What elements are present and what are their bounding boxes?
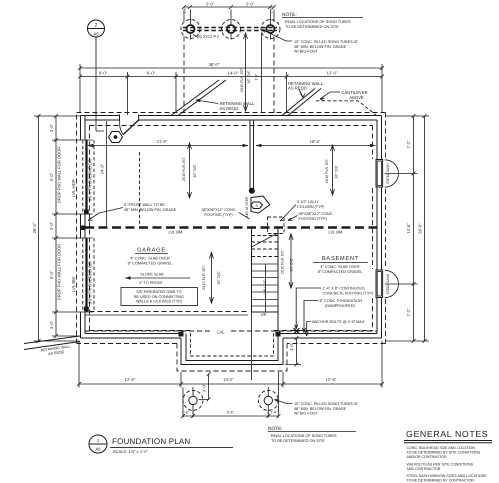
svg-text:5'-0": 5'-0" [206,2,215,7]
svg-text:2X10 FLR JST.: 2X10 FLR JST. [182,156,186,181]
right overall dimension line 28'-0" [424,116,426,341]
porch PT beam dashed band [183,28,277,31]
svg-text:9'-6": 9'-6" [227,410,235,414]
left door jamb cross lines [79,140,93,312]
bottom sono tube left [183,387,203,414]
man door swing arc [120,121,124,135]
svg-text:LVL BM.: LVL BM. [329,230,344,235]
garage column hexagon [109,132,123,143]
foundation dampproofed note [303,301,319,333]
svg-text:4: 4 [255,203,258,208]
svg-text:ANCHOR BOLTS @ 4'-0" MAX: ANCHOR BOLTS @ 4'-0" MAX [312,320,365,324]
wall left door header thick lines [85,140,87,312]
bottom dim extension lines [79,341,382,388]
svg-text:ABOVE: ABOVE [349,95,364,100]
retaining wall bottom left label [41,344,72,357]
left dim extension lines [34,116,80,341]
svg-text:TO BE DETERMINED ON SITE: TO BE DETERMINED ON SITE [285,25,339,29]
basement interior width dim 18'-4" [256,145,376,147]
stoop depth dim 4'-0" [285,336,301,367]
lally footing dashed square [268,217,285,234]
stairs shaft right wall [277,228,279,313]
svg-text:14'-0": 14'-0" [100,163,105,174]
stoop outer walls [181,338,283,365]
svg-text:A6: A6 [93,32,99,37]
svg-text:4" TO FRONT: 4" TO FRONT [139,281,163,285]
svg-text:6'-0": 6'-0" [147,71,156,76]
porch dim extension lines [184,10,274,23]
frost wall note [88,208,123,221]
svg-text:3 1/2" LALLY: 3 1/2" LALLY [297,200,319,204]
title block detail circle 1/A6 [89,435,107,453]
window 2 well arc [385,270,399,297]
porch joist span arrow [245,33,247,111]
bottom sono note [275,399,293,403]
sono tube 3 [261,19,280,40]
left wall outer face dashed at doors [82,140,84,312]
bottom tube dim extensions [183,372,279,418]
svg-text:WALLS & CEILINGS (TYP): WALLS & CEILINGS (TYP) [136,300,183,304]
svg-text:2X10 FLR JST.: 2X10 FLR JST. [240,67,244,92]
bottom sono tube right [258,387,278,414]
svg-text:9'-0": 9'-0" [49,270,54,279]
garage joist span arrow lower [210,253,214,304]
svg-text:48" MIN. BELOW FIN. GRADE: 48" MIN. BELOW FIN. GRADE [294,45,347,49]
window 1 right wall frame [376,160,383,188]
svg-text:13'-8": 13'-8" [406,223,411,234]
overall top dimension line 38'-0" [80,67,382,69]
stairs break diagonal [252,233,279,247]
stairs dashed treads [252,236,279,257]
svg-text:1: 1 [97,438,100,443]
svg-text:4" CONC. SLAB OVER: 4" CONC. SLAB OVER [320,265,360,269]
svg-text:14R / 13T: 14R / 13T [263,280,267,295]
svg-text:1'-6": 1'-6" [270,410,278,414]
wall bottom right of stoop [278,334,382,339]
svg-text:9'-0": 9'-0" [49,172,54,181]
svg-text:FOUNDATION PLAN: FOUNDATION PLAN [112,437,190,446]
svg-text:FINAL LOCATIONS OF SONO TUBES: FINAL LOCATIONS OF SONO TUBES [271,434,337,438]
stair wall extension to rear wall [251,312,253,380]
bottom dimension line [79,383,382,385]
wall right outer face [381,116,383,339]
door jamb post squares [84,210,89,215]
svg-text:36"X36"X12" CONC: 36"X36"X12" CONC [201,208,235,212]
lally footing note right [288,216,298,221]
svg-text:TO BE DETERMINED ON SITE: TO BE DETERMINED ON SITE [271,439,325,443]
stairs solid treads [252,264,279,306]
svg-text:6'-0": 6'-0" [99,71,108,76]
svg-text:LVL BM.: LVL BM. [71,276,76,292]
LVL BM main beam dashed [85,226,377,229]
retaining wall top right pair [282,89,321,116]
svg-text:7'-2": 7'-2" [406,140,411,149]
right dim extension lines [385,116,429,341]
PT beam label [193,35,196,37]
svg-text:BASEMENT: BASEMENT [322,256,359,262]
NOTE block bottom [268,426,356,443]
garage interior width dim 21'-6" [88,145,248,147]
svg-text:3'-0": 3'-0" [49,123,54,132]
sono tube note top [262,30,359,54]
stairs bottom [252,311,279,313]
svg-text:DROP FND WALL FOR DOOR: DROP FND WALL FOR DOOR [57,147,62,204]
svg-text:3'-0": 3'-0" [49,221,54,230]
svg-text:GARAGE: GARAGE [137,248,166,254]
sono tube 1 [181,19,200,40]
svg-text:5'-0": 5'-0" [246,2,255,7]
porch dim ticks [182,5,276,9]
svg-text:DROP FND WALL FOR DOOR: DROP FND WALL FOR DOOR [57,244,62,301]
continuous footing note [295,288,321,329]
basement joist span arrow upper [331,145,335,195]
porch edge line [261,33,263,113]
garage rear slab step dashed line [90,311,249,313]
svg-text:14'-0": 14'-0" [228,71,239,76]
general notes underline [404,441,492,443]
svg-text:8" COMPACTED GRAVEL: 8" COMPACTED GRAVEL [318,270,363,274]
svg-text:1'-4" X 8" CONTINUOUS: 1'-4" X 8" CONTINUOUS [323,287,366,291]
window 2 right wall frame [376,270,383,298]
svg-text:SCALE: 1/4" = 1'-0": SCALE: 1/4" = 1'-0" [113,449,148,454]
rear stoop post right [276,332,281,337]
NOTE block top right [282,12,363,29]
svg-text:3'-0": 3'-0" [49,320,54,329]
svg-text:TO BE DETERMINED BY SITE CONDI: TO BE DETERMINED BY SITE CONDITIONS [407,451,481,455]
svg-text:28'-0": 28'-0" [418,223,423,234]
svg-text:28'-0": 28'-0" [32,222,37,233]
svg-text:FOOTING (TYP): FOOTING (TYP) [299,217,328,221]
retaining wall top left label [196,99,218,103]
svg-text:GENERAL NOTES: GENERAL NOTES [406,429,488,439]
retaining wall top right label [299,90,305,98]
cantilever label [320,92,340,101]
center bearing wall garage/basement [250,120,254,190]
inner dashed footing perimeter [90,126,373,331]
svg-text:16" O/C: 16" O/C [217,271,221,284]
stairs center rail [265,264,267,312]
lally hexagon with number 4 [251,202,263,209]
svg-text:10" CONC. FILLED SONO TUBES AT: 10" CONC. FILLED SONO TUBES AT [294,402,359,406]
wall left outer face [80,116,82,339]
svg-text:16" O/C: 16" O/C [335,165,339,178]
svg-text:W/ BIG FOOT: W/ BIG FOOT [294,412,319,416]
svg-text:21'-6": 21'-6" [157,139,168,144]
svg-text:AS REQD: AS REQD [288,86,307,91]
svg-text:9'0 X 7'0 OVERHD DR: 9'0 X 7'0 OVERHD DR [88,262,93,304]
svg-text:AS REQD: AS REQD [220,106,239,111]
svg-text:12'-0": 12'-0" [327,71,338,76]
svg-text:2X10 FLR JST.: 2X10 FLR JST. [202,265,206,290]
man door leaf [123,120,138,135]
svg-text:W/ BIG FOOT: W/ BIG FOOT [294,50,319,54]
LVL opening dashed line across rear wall [85,330,377,332]
svg-text:CONC. BULKHEAD SIZE AND LOCATI: CONC. BULKHEAD SIZE AND LOCATION [407,446,476,450]
svg-text:9'0 X 7'0 OVERHD DR: 9'0 X 7'0 OVERHD DR [88,159,93,201]
svg-text:AND/OR CONTRACTOR: AND/OR CONTRACTOR [407,455,448,459]
wall top inner face [85,119,377,121]
svg-text:(DAMPROOFED): (DAMPROOFED) [325,304,355,308]
svg-text:36"X36"X12" CONC: 36"X36"X12" CONC [299,212,333,216]
top dimension line segments [80,76,382,78]
outer dashed footing perimeter [77,113,386,372]
svg-text:12'-6": 12'-6" [125,377,136,382]
svg-text:5/8" FIRERATED GWB TO: 5/8" FIRERATED GWB TO [136,290,181,294]
svg-text:8" FROST WALL TO BE: 8" FROST WALL TO BE [124,203,165,207]
svg-text:WALKOUTS AS PER SITE CONDITION: WALKOUTS AS PER SITE CONDITIONS [407,463,474,467]
left inner dimension line [55,116,57,336]
svg-text:2X10 FLR JST.: 2X10 FLR JST. [281,249,285,274]
right inner dimension line [413,116,415,341]
stoop to tubes dim 3'-0" [199,372,211,401]
wall top outer face [81,115,382,117]
svg-text:COLUMN (TYP): COLUMN (TYP) [297,205,325,209]
wall bottom garage [81,334,184,339]
garage hexagon dot [114,135,118,139]
porch side dashed lines [184,37,274,114]
bottom tube dim line [183,415,279,417]
stoop inner walls [186,334,278,361]
svg-text:12'-6": 12'-6" [326,377,337,382]
man door jambs top wall [120,115,139,122]
drop wall inner dashed at doors [93,140,95,312]
detail marker circle 2/A6 [88,20,105,131]
svg-text:7'-2": 7'-2" [406,308,411,317]
garage joist span arrow upper [188,143,192,198]
svg-text:18'-4": 18'-4" [310,139,321,144]
svg-text:13'-0": 13'-0" [223,377,234,382]
column dot at wall end [249,188,255,194]
lally column pentagon symbol [251,196,270,213]
svg-text:48" MIN. BELOW FIN. GRADE: 48" MIN. BELOW FIN. GRADE [124,208,177,212]
lally footing note left [239,213,250,220]
cantilever dashed outline [316,101,376,115]
svg-text:4" CONC. SLAB OVER: 4" CONC. SLAB OVER [130,257,170,261]
window 1 well arc [385,160,399,187]
rear stoop post left [179,332,184,337]
anchor bolt X mark [294,328,300,334]
top dimension extension lines [80,64,382,115]
anchor bolts note [305,322,311,337]
svg-text:2: 2 [95,23,98,29]
basement joist span arrow lower [289,234,293,288]
firerated gwb boxed note [121,288,198,306]
svg-text:16" O/C: 16" O/C [290,258,294,271]
svg-text:STEEL SASH WINDOW SIZES AND LO: STEEL SASH WINDOW SIZES AND LOCATIONS [407,474,488,478]
svg-text:10" CONC. FILLED SONO TUBES AT: 10" CONC. FILLED SONO TUBES AT [294,40,359,44]
wall left inner face solid piers [84,116,86,334]
lally column note [280,205,296,222]
svg-text:(6) 2X12 P.T.: (6) 2X12 P.T. [197,34,220,39]
svg-text:FOOTING (TYP): FOOTING (TYP) [204,213,233,217]
left overall dimension line 28'-0" [38,116,40,341]
svg-text:AND CONTRACTOR: AND CONTRACTOR [407,467,441,471]
svg-text:LVL: LVL [217,330,225,335]
stairs shaft left wall [251,228,253,313]
garage rear slab step solid line [85,314,248,316]
svg-text:8" COMPACTED GRAVEL: 8" COMPACTED GRAVEL [128,262,173,266]
retaining wall bottom left pair [24,336,80,350]
svg-text:16" O/C: 16" O/C [193,164,197,177]
retaining wall top left pair [171,80,226,116]
svg-text:48" MIN. BELOW FIN. GRADE: 48" MIN. BELOW FIN. GRADE [294,407,347,411]
svg-text:TO BE DETERMINED BY CONTRACTOR: TO BE DETERMINED BY CONTRACTOR [407,479,475,483]
svg-text:BE USED ON CONNECTING: BE USED ON CONNECTING [134,295,184,299]
svg-text:8" CONC. FOUNDATION: 8" CONC. FOUNDATION [320,299,363,303]
svg-text:SLOPE SLAB: SLOPE SLAB [140,273,164,277]
svg-text:A6: A6 [95,447,101,452]
svg-text:2X10 FLR JST.: 2X10 FLR JST. [325,158,329,183]
svg-text:38'-0": 38'-0" [209,62,220,67]
svg-text:LVL HDR: LVL HDR [71,179,76,197]
svg-text:UP: UP [261,312,267,317]
svg-text:3'-0": 3'-0" [202,383,207,392]
wall right inner face [376,120,378,334]
svg-text:FINAL LOCATIONS OF SONO TUBES: FINAL LOCATIONS OF SONO TUBES [285,20,351,24]
beam pocket post at left wall [81,226,86,231]
stoop inner dashed footing [191,333,274,356]
svg-text:CONCRETE FOOTING (TYP): CONCRETE FOOTING (TYP) [323,291,374,295]
sono tube 2 [222,19,241,40]
svg-text:4'-0": 4'-0" [289,342,294,351]
svg-text:LVL BM.: LVL BM. [169,230,184,235]
garage height dim 14'-0" vertical [106,121,108,226]
svg-text:14R AT STEP: 14R AT STEP [245,196,249,218]
top porch dimension line [184,6,274,8]
dashed projection line garage [139,152,141,226]
